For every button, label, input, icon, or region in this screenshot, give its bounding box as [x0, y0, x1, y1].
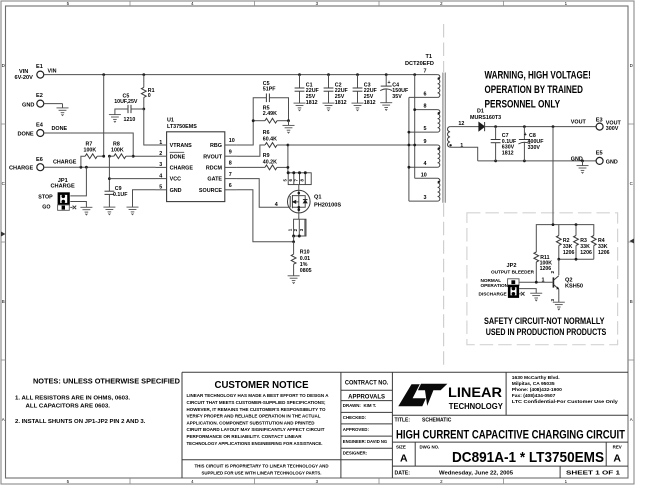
junction bus2 pin5 — [408, 131, 411, 134]
svg-text:CONTRACT NO.: CONTRACT NO. — [345, 381, 389, 387]
svg-text:VTRANS: VTRANS — [170, 143, 193, 149]
svg-text:TITLE:: TITLE: — [395, 418, 411, 424]
svg-text:KIM T.: KIM T. — [364, 403, 377, 408]
svg-text:9: 9 — [229, 149, 232, 155]
svg-text:R9: R9 — [263, 153, 270, 159]
T1 pin 8 wire to bus — [415, 109, 438, 111]
border zone tick marks top — [130, 1, 504, 6]
T1 pin 5 wire to bus — [409, 131, 438, 133]
svg-text:4: 4 — [424, 161, 427, 167]
customer notice proprietary note — [195, 463, 329, 476]
junction bus2 drain — [408, 144, 411, 147]
wire output GND row — [478, 160, 596, 162]
svg-text:E2: E2 — [36, 93, 43, 99]
svg-text:1812: 1812 — [335, 100, 347, 106]
junction bus2 pin4 — [408, 166, 411, 169]
svg-text:1206: 1206 — [580, 250, 592, 256]
svg-text:D: D — [630, 63, 633, 68]
Linear Technology logo text — [448, 385, 504, 411]
svg-text:D: D — [2, 63, 5, 68]
svg-text:CIRUIT BOARD LAYOUT MAY SIGNIF: CIRUIT BOARD LAYOUT MAY SIGNIFICANTLY AF… — [187, 427, 325, 433]
junction GND/C8 — [523, 160, 526, 163]
svg-text:DAVID NG: DAVID NG — [367, 439, 387, 444]
safety circuit caption — [484, 316, 607, 338]
customer notice body — [187, 393, 329, 447]
svg-text:VERIFY PROPER AND RELIABLE OPE: VERIFY PROPER AND RELIABLE OPERATION IN … — [187, 414, 321, 420]
svg-text:DATE:: DATE: — [395, 471, 411, 477]
svg-text:APPROVED:: APPROVED: — [343, 427, 370, 432]
wire drain node to transformer — [288, 144, 438, 146]
svg-text:9: 9 — [424, 139, 427, 145]
ground at U1 GND — [127, 207, 139, 215]
border zone tick marks left — [1, 124, 6, 360]
T1 core — [443, 73, 445, 203]
wire RBG pin10 up to R5/C5 loop — [236, 121, 253, 145]
svg-text:A: A — [2, 417, 5, 422]
no-connect X at JP2 pin3 — [519, 292, 524, 296]
date cell — [395, 471, 514, 477]
svg-text:C: C — [2, 181, 5, 186]
junction rail/VOUT drop — [552, 223, 555, 226]
no-connect X at JP1 pin3 — [70, 206, 76, 210]
dwg no. cell — [420, 445, 605, 466]
svg-text:R6: R6 — [263, 130, 270, 136]
svg-text:CUSTOMER NOTICE: CUSTOMER NOTICE — [215, 379, 309, 391]
wire SOURCE pin6 sense line — [236, 190, 293, 242]
junction R1/C5/VTRANS — [142, 108, 145, 111]
wire VCC row to U1 pin4 — [109, 178, 155, 180]
HV boundary dashed line — [443, 24, 445, 366]
svg-text:1812: 1812 — [502, 150, 514, 156]
title row — [395, 418, 452, 424]
T1 secondary winding 12-1 — [448, 127, 452, 148]
capacitor C9 — [105, 186, 129, 207]
transistor Q1 PH20100S — [288, 190, 342, 213]
svg-text:DC891A-1 * LT3750EMS: DC891A-1 * LT3750EMS — [452, 449, 604, 466]
svg-text:VOUT: VOUT — [571, 119, 587, 125]
svg-text:1: 1 — [460, 143, 463, 149]
U1 pin names left — [170, 143, 194, 194]
border zone numbers top — [67, 1, 568, 6]
resistor R3 — [574, 225, 592, 260]
svg-text:DONE: DONE — [52, 126, 68, 132]
capacitor C5 (10UF) — [114, 94, 144, 123]
capacitor C7 — [491, 127, 517, 161]
svg-text:2.49K: 2.49K — [263, 111, 277, 117]
svg-text:CHECKED:: CHECKED: — [343, 415, 367, 420]
svg-text:GND: GND — [571, 156, 583, 162]
svg-text:0805: 0805 — [300, 268, 312, 274]
wire Q2 base row — [519, 281, 553, 283]
diode D1 MURS160T3 — [470, 109, 501, 132]
svg-text:SAFETY CIRCUIT-NOT NORMALLY: SAFETY CIRCUIT-NOT NORMALLY — [484, 316, 605, 327]
ground at C2 — [323, 103, 335, 111]
svg-text:LTC Confidential-For Customer: LTC Confidential-For Customer Use Only — [512, 399, 618, 405]
junction R11/base — [535, 281, 538, 284]
ground at Q2 emitter — [553, 302, 565, 310]
svg-text:Wednesday, June 22, 2005: Wednesday, June 22, 2005 — [439, 471, 513, 477]
svg-text:330V: 330V — [528, 145, 541, 151]
terminal E6 CHARGE — [9, 157, 44, 172]
wire bleeder top rail — [536, 225, 594, 252]
svg-text:A: A — [613, 452, 621, 464]
svg-text:VCC: VCC — [170, 177, 181, 183]
svg-text:STOP: STOP — [38, 194, 53, 200]
svg-text:DONE: DONE — [170, 154, 186, 160]
capacitor C1 — [295, 75, 320, 106]
svg-text:2: 2 — [550, 271, 555, 274]
wire T1 bus drain side — [408, 97, 410, 201]
transistor Q1 drain pin box — [282, 171, 311, 184]
junction CHARGE/R7 — [80, 166, 83, 169]
ground at R5/C5 — [288, 121, 290, 126]
svg-text:APPLICATION. COMPONENT SUBSTI: APPLICATION. COMPONENT SUBSTITUTION AND … — [187, 420, 315, 426]
drawn cell — [343, 403, 376, 408]
junction GND/ground — [581, 160, 584, 163]
svg-text:6: 6 — [229, 183, 232, 189]
svg-text:CHARGE: CHARGE — [51, 184, 76, 190]
wire CHARGE net to U1 pin3 — [44, 166, 156, 168]
svg-text:60.4K: 60.4K — [263, 136, 277, 142]
svg-text:HOWEVER, IT REMAINS THE CUSTOM: HOWEVER, IT REMAINS THE CUSTOMER'S RESPO… — [187, 407, 326, 413]
svg-text:1: 1 — [542, 278, 545, 284]
T1 primary winding 9-4 — [438, 145, 440, 167]
svg-text:DWG NO.: DWG NO. — [420, 445, 440, 450]
capacitor C5 (51PF) — [253, 81, 288, 121]
wire VOUT to bleeder rail — [552, 127, 554, 225]
junction VOUT/bleeder — [552, 125, 555, 128]
transistor Q1 source pin box — [288, 212, 306, 237]
svg-text:0: 0 — [148, 93, 151, 99]
svg-text:7: 7 — [424, 69, 427, 75]
border zone letters right — [630, 63, 633, 422]
T1 pin 4 wire to bus — [409, 166, 438, 168]
resistor R2 — [556, 225, 574, 260]
svg-text:RDCM: RDCM — [206, 166, 223, 172]
svg-text:HIGH CURRENT CAPACITIVE CHARGI: HIGH CURRENT CAPACITIVE CHARGING CIRCUIT — [396, 430, 625, 442]
wire JP2 pin2 to ground — [519, 289, 536, 294]
transformer T1 labels — [405, 54, 434, 67]
svg-text:E4: E4 — [36, 123, 44, 129]
engineer cell — [343, 439, 387, 444]
title block grid lines — [182, 372, 628, 478]
svg-text:E3: E3 — [596, 118, 603, 124]
junction dots on VIN rail — [102, 73, 416, 76]
svg-text:DONE: DONE — [18, 131, 34, 137]
address block — [512, 375, 618, 405]
junction R8/VCC branch — [108, 155, 111, 158]
svg-text:A: A — [630, 417, 633, 422]
svg-text:1630 McCarthy Blvd.: 1630 McCarthy Blvd. — [512, 375, 560, 381]
U1 pin names right — [199, 143, 223, 194]
svg-text:0.1UF: 0.1UF — [113, 192, 128, 198]
svg-text:10: 10 — [229, 138, 235, 144]
svg-text:4: 4 — [159, 173, 162, 179]
svg-text:PH20100S: PH20100S — [314, 202, 341, 208]
svg-text:10UF,25V: 10UF,25V — [114, 99, 138, 105]
border zone letters left — [2, 63, 5, 422]
svg-text:USED IN PRODUCTION PRODUCTS: USED IN PRODUCTION PRODUCTS — [486, 327, 607, 338]
junction VOUT/C7 — [494, 125, 497, 128]
svg-text:C: C — [630, 181, 633, 186]
svg-text:100K: 100K — [111, 147, 124, 153]
svg-text:MURS160T3: MURS160T3 — [470, 115, 501, 121]
junction bottom rail/R3 — [575, 258, 578, 261]
T1 primary winding 8-5 — [438, 110, 440, 133]
svg-text:SOURCE: SOURCE — [199, 188, 222, 194]
svg-text:Milpitas, CA 95035: Milpitas, CA 95035 — [512, 381, 555, 387]
resistor R1 — [141, 75, 154, 109]
svg-text:LINEAR: LINEAR — [448, 385, 502, 400]
border zone tick marks right — [628, 124, 634, 360]
junction bottom rail/Q2 collector — [557, 258, 560, 261]
terminal E1 VIN — [15, 64, 44, 81]
wire VTRANS from R1 node to U1 pin1 — [144, 109, 156, 145]
wire E2 to ground — [44, 103, 63, 105]
wire drain box to Q1 — [298, 185, 300, 190]
svg-text:DISCHARGE: DISCHARGE — [479, 292, 507, 297]
svg-text:JP2: JP2 — [507, 263, 517, 269]
wire T1 pin12 to D1 — [450, 126, 479, 128]
svg-text:300V: 300V — [606, 126, 619, 132]
capacitor C8 (electrolytic) — [518, 127, 544, 161]
note 1 — [15, 396, 130, 410]
svg-text:3: 3 — [159, 162, 162, 168]
svg-text:Fax: (408)434-0507: Fax: (408)434-0507 — [512, 393, 556, 399]
svg-text:RBG: RBG — [210, 143, 222, 149]
resistor R6 — [236, 130, 288, 156]
svg-text:1210: 1210 — [124, 117, 136, 123]
svg-text:U1: U1 — [167, 118, 174, 124]
rev cell — [613, 445, 622, 465]
svg-text:5: 5 — [159, 185, 162, 191]
junction CHARGE/JP1 — [85, 166, 88, 169]
svg-text:WARNING, HIGH VOLTAGE!: WARNING, HIGH VOLTAGE! — [485, 70, 591, 82]
svg-text:OUTPUT BLEEDER: OUTPUT BLEEDER — [491, 269, 535, 274]
svg-text:OPERATION BY TRAINED: OPERATION BY TRAINED — [485, 84, 584, 96]
svg-text:SCHEMATIC: SCHEMATIC — [422, 418, 452, 424]
junction VOUT/C8 — [523, 125, 526, 128]
ground at output — [582, 161, 584, 166]
ground at C1 — [294, 103, 306, 111]
svg-text:NOTES: UNLESS OTHERWISE SPECI: NOTES: UNLESS OTHERWISE SPECIFIED — [33, 377, 180, 386]
T1 primary winding 7-6 — [438, 75, 440, 98]
svg-text:SHEET 1 OF 1: SHEET 1 OF 1 — [566, 471, 620, 477]
svg-text:1%: 1% — [300, 262, 308, 268]
junction source sense — [292, 240, 295, 243]
terminal E3 VOUT — [596, 118, 622, 132]
svg-text:6: 6 — [424, 91, 427, 97]
resistor R5 — [253, 105, 288, 123]
transistor Q2 KSH50 — [550, 259, 583, 302]
junction R5/C5 left — [252, 119, 255, 122]
jumper JP1 — [38, 178, 75, 210]
svg-text:OPERATION: OPERATION — [481, 283, 509, 288]
jumper JP2 — [479, 263, 535, 297]
svg-text:E5: E5 — [596, 151, 603, 157]
junction R7/R8/VIN — [102, 155, 105, 158]
svg-text:R10: R10 — [300, 250, 310, 256]
wire DONE to U1 pin2 — [133, 155, 155, 157]
warning text — [485, 70, 591, 111]
capacitor C4 (electrolytic) — [380, 75, 409, 103]
U1 pin numbers left 1-5 — [159, 140, 162, 191]
capacitor C3 — [353, 75, 378, 106]
svg-text:GND: GND — [170, 188, 182, 194]
svg-text:ALL CAPACITORS ARE 0603.: ALL CAPACITORS ARE 0603. — [26, 404, 111, 410]
svg-text:PERSONNEL ONLY: PERSONNEL ONLY — [485, 99, 561, 111]
wire T1 pin1 to output gnd row — [450, 147, 478, 161]
U1 pin numbers right 10,9,8,7,6 — [229, 138, 235, 189]
junction VCC row — [108, 177, 111, 180]
resistor R7 — [81, 142, 104, 168]
svg-text:TECHNOLOGY APPLICATIONS ENGINE: TECHNOLOGY APPLICATIONS ENGINEERING FOR … — [187, 441, 324, 447]
svg-text:3: 3 — [550, 299, 555, 302]
ground at C3 — [352, 103, 364, 111]
terminal E5 GND — [596, 151, 618, 166]
T1 pin numbers — [421, 69, 427, 202]
resistor R9 — [236, 153, 288, 170]
svg-text:GND: GND — [606, 160, 618, 166]
svg-text:VIN: VIN — [19, 69, 28, 75]
wire VCC branch down to C9 — [108, 156, 110, 191]
svg-text:GATE: GATE — [207, 177, 222, 183]
svg-text:CHARGE: CHARGE — [170, 166, 194, 172]
svg-text:2: 2 — [159, 151, 162, 157]
safety circuit dashed box — [467, 213, 618, 345]
wire JP1 pin2 to ground — [70, 202, 86, 208]
svg-text:3: 3 — [424, 195, 427, 201]
U1 pin stubs right — [225, 145, 237, 190]
ground at R10 — [288, 276, 300, 284]
svg-text:8: 8 — [424, 104, 427, 110]
svg-text:SIZE: SIZE — [396, 445, 406, 450]
svg-text:DRAWN:: DRAWN: — [343, 403, 362, 408]
junction bus1 pin8 — [413, 108, 416, 111]
U1 pin stubs left — [156, 145, 167, 190]
border centering arrow left — [1, 232, 6, 237]
svg-text:RVOUT: RVOUT — [203, 154, 222, 160]
T1 pin 10 wire — [415, 177, 438, 179]
svg-text:E1: E1 — [36, 64, 43, 70]
svg-text:Phone: (408)432-1900: Phone: (408)432-1900 — [512, 387, 562, 393]
T1 primary winding 10-3 — [438, 178, 440, 201]
svg-text:REV: REV — [613, 445, 622, 450]
ground at C4 — [380, 103, 392, 111]
resistor R4 — [591, 236, 609, 260]
junction DONE / R8 — [132, 155, 135, 158]
svg-text:TECHNOLOGY: TECHNOLOGY — [449, 402, 504, 411]
wire VIN branch to R7/R8 junction — [103, 75, 105, 157]
junction R6/drain — [287, 144, 290, 147]
terminal E2 GND — [22, 93, 44, 108]
svg-text:8: 8 — [229, 161, 232, 167]
border zone tick marks bottom — [130, 478, 504, 484]
svg-text:+: + — [524, 132, 527, 138]
svg-text:+: + — [388, 80, 391, 86]
ground at JP2 — [530, 293, 542, 301]
wire GATE pin7 to Q1 gate — [236, 179, 290, 208]
junction R9/drain — [287, 166, 290, 169]
size cell — [396, 445, 408, 465]
wire T1 bus VIN side — [414, 75, 416, 179]
svg-text:ENGINEER:: ENGINEER: — [343, 439, 366, 444]
op-amp U1 LT3750EMS body — [167, 118, 225, 202]
T1 pin 6 wire to bus — [409, 96, 438, 98]
wire drain node vertical — [287, 145, 289, 173]
svg-text:APPROVALS: APPROVALS — [348, 395, 385, 401]
svg-text:DCT20EFD: DCT20EFD — [405, 61, 434, 67]
svg-text:1812: 1812 — [306, 100, 318, 106]
svg-text:100K: 100K — [84, 147, 97, 153]
junction R5/C5 right — [287, 119, 290, 122]
svg-text:1812: 1812 — [364, 100, 376, 106]
wire U1 GND pin5 to ground — [133, 190, 156, 207]
svg-text:PERFORMANCE OR RELIABILITY. C: PERFORMANCE OR RELIABILITY. CONTACT LINE… — [187, 434, 302, 440]
svg-text:CHARGE: CHARGE — [9, 165, 34, 171]
svg-text:51PF: 51PF — [263, 87, 276, 93]
svg-text:1206: 1206 — [563, 250, 575, 256]
svg-text:35V: 35V — [392, 94, 402, 100]
terminal E4 DONE — [18, 123, 44, 138]
ground at C9 — [103, 207, 115, 215]
border zone numbers bottom — [67, 479, 568, 484]
svg-text:0.01: 0.01 — [300, 256, 310, 262]
svg-text:Q1: Q1 — [314, 195, 321, 201]
Linear Technology logo mark — [398, 384, 447, 407]
svg-text:1206: 1206 — [598, 250, 610, 256]
svg-text:GO: GO — [42, 204, 50, 210]
svg-text:6V-20V: 6V-20V — [15, 75, 34, 81]
svg-text:E6: E6 — [36, 157, 43, 163]
ground at C5 — [109, 115, 121, 123]
capacitor C2 — [324, 75, 349, 106]
svg-text:DESIGNER:: DESIGNER: — [343, 451, 368, 456]
ground at JP1 — [80, 207, 92, 215]
wire DONE net — [44, 133, 133, 156]
svg-text:B: B — [630, 299, 633, 304]
wire bleeder bottom rail — [559, 258, 594, 260]
border centering arrow right — [630, 239, 635, 244]
wire VIN rail — [44, 74, 438, 76]
T1 pin 3 wire — [409, 200, 438, 202]
svg-text:LINEAR TECHNOLOGY HAS MADE A B: LINEAR TECHNOLOGY HAS MADE A BEST EFFORT… — [187, 393, 329, 399]
svg-text:B: B — [2, 299, 5, 304]
svg-text:D1: D1 — [477, 109, 484, 115]
resistor R11 — [534, 252, 552, 282]
svg-text:KSH50: KSH50 — [565, 283, 583, 289]
resistor R8 — [109, 142, 133, 159]
svg-text:GND: GND — [22, 102, 34, 108]
svg-text:THIS CIRCUIT IS PROPRIETARY TO: THIS CIRCUIT IS PROPRIETARY TO LINEAR TE… — [195, 463, 329, 469]
svg-text:2. INSTALL SHUNTS ON JP1-JP2 P: 2. INSTALL SHUNTS ON JP1-JP2 PIN 2 AND 3… — [15, 419, 146, 425]
svg-text:T1: T1 — [426, 54, 433, 60]
resistor R10 — [291, 242, 311, 276]
svg-text:5: 5 — [424, 126, 427, 132]
svg-text:VIN: VIN — [48, 68, 57, 74]
svg-text:7: 7 — [229, 172, 232, 178]
svg-text:A: A — [400, 452, 408, 464]
wire VOUT row — [485, 126, 596, 128]
junction bus1 pin9 — [413, 144, 416, 147]
svg-text:1: 1 — [159, 140, 162, 146]
svg-text:CHARGE: CHARGE — [53, 160, 77, 166]
junction rail/R3 — [575, 223, 578, 226]
svg-text:1. ALL RESISTORS ARE IN OHMS,: 1. ALL RESISTORS ARE IN OHMS, 0603. — [15, 396, 130, 402]
svg-text:CIRCUIT THAT MEETS CUSTOMER-SU: CIRCUIT THAT MEETS CUSTOMER-SUPPLIED SPE… — [187, 400, 326, 406]
svg-text:SUPPLIED FOR USE WITH LINEAR T: SUPPLIED FOR USE WITH LINEAR TECHNOLOGY … — [202, 471, 323, 477]
junction GND/C7 — [494, 160, 497, 163]
